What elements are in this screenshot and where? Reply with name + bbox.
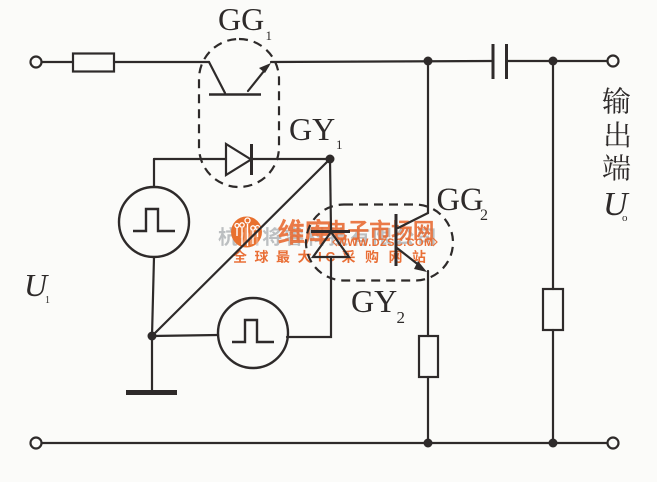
node dot bottom x553: [549, 439, 558, 448]
resistor R3: [543, 289, 563, 330]
svg-text:GG: GG: [437, 182, 484, 218]
wire: [152, 257, 154, 336]
wire to ground: [151, 336, 153, 390]
svg-text:GY: GY: [351, 283, 397, 319]
wire: [427, 377, 429, 443]
wire: [114, 61, 209, 63]
node dot bottom x428: [424, 439, 433, 448]
wire right column: [552, 61, 554, 289]
watermark gray company text: [218, 227, 434, 246]
wire to pulse source P2: [152, 335, 218, 336]
svg-text:1: 1: [336, 137, 343, 152]
transistor GG1 (UJT-style): [209, 62, 271, 95]
pulse source P1: [119, 187, 189, 257]
svg-text:o: o: [622, 212, 628, 224]
zener GY2: [311, 159, 350, 257]
bridge diagonal wire: [152, 159, 330, 336]
wire top rail right of GG1: [271, 61, 492, 62]
node dot bottom-left junction: [148, 332, 157, 341]
capacitor C: [493, 44, 507, 79]
svg-text:2: 2: [480, 207, 488, 224]
node dot top x428: [424, 57, 433, 66]
wire bottom rail: [42, 442, 607, 444]
svg-text:1: 1: [266, 28, 273, 43]
watermark slogan: [233, 250, 425, 265]
output terminal top-right: [608, 56, 619, 67]
terminal bottom-right: [608, 438, 619, 449]
svg-text:2: 2: [397, 308, 406, 327]
watermark logo circle: [231, 217, 262, 248]
wire emitter down: [427, 271, 429, 336]
dashed enclosure GG2/GY2: [306, 205, 453, 281]
svg-text:WWW.DZSC.COM: WWW.DZSC.COM: [336, 237, 433, 249]
pulse source P2: [218, 298, 288, 368]
label Uo (vertical CJK): [603, 87, 630, 114]
resistor R2: [419, 336, 438, 377]
svg-text:1: 1: [45, 295, 50, 306]
diode GY1: [154, 144, 330, 175]
svg-text:GY: GY: [289, 111, 335, 147]
watermark big orange name: [278, 219, 433, 245]
wire: [552, 330, 554, 443]
wire: [42, 61, 73, 63]
wire from P2 to GY2 branch: [287, 257, 331, 337]
terminal bottom-left: [31, 438, 42, 449]
transistor GG2: [396, 61, 428, 272]
svg-text:GG: GG: [218, 1, 264, 37]
wire left branch down: [153, 159, 155, 187]
resistor R-in: [73, 54, 114, 72]
dashed enclosure GG1: [199, 39, 279, 187]
wire: [507, 60, 607, 62]
input terminal top-left: [31, 57, 42, 68]
node dot top x553: [549, 57, 558, 66]
node GY1 junction: [326, 155, 335, 164]
ground: [126, 390, 177, 395]
